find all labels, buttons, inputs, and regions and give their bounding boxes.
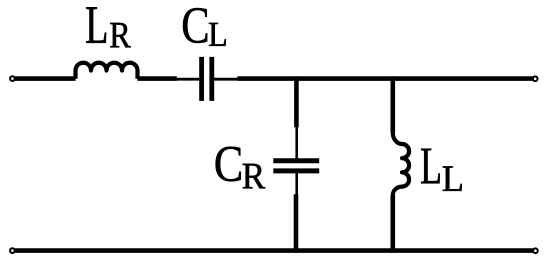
wire top main run to right port — [237, 76, 532, 81]
wire thin lead out of C_R bottom plate — [295, 173, 298, 194]
wire shunt branch down to L_L — [390, 76, 395, 132]
capacitor C_R plate 2 — [273, 168, 319, 173]
label C_L subscript L — [209, 23, 226, 46]
wire thin lead into C_L left plate — [177, 78, 200, 81]
label L_L subscript L — [443, 166, 462, 191]
wire thin lead out of C_L right plate — [214, 78, 238, 81]
label C_L main letter C — [183, 8, 207, 43]
wire from L_L down to bottom rail — [390, 195, 395, 252]
inductor L_L (shunt coil) — [393, 133, 409, 196]
capacitor C_L plate 1 — [199, 57, 204, 101]
label C_R main letter C — [216, 147, 241, 182]
inductor L_R (series coil) — [76, 63, 138, 79]
label L_R main letter L — [86, 7, 106, 43]
wire bottom rail — [15, 248, 533, 253]
wire from C_R down to bottom rail — [294, 194, 299, 252]
terminal port P3 (bottom-left) — [10, 248, 15, 253]
terminal port P1 (top-left input) — [10, 76, 15, 81]
label L_R subscript R — [110, 23, 131, 47]
label L_L main letter L — [421, 149, 440, 184]
terminal port P2 (top-right output) — [533, 76, 538, 81]
capacitor C_L plate 2 — [209, 57, 214, 101]
wire between L_R and C_L — [137, 76, 176, 81]
wire top-left lead — [15, 76, 76, 81]
capacitor C_R plate 1 — [273, 158, 319, 163]
terminal port P4 (bottom-right) — [533, 248, 538, 253]
label C_R subscript R — [243, 164, 266, 189]
wire thin lead into C_R top plate — [295, 127, 298, 159]
wire shunt branch down toward C_R — [294, 76, 299, 127]
